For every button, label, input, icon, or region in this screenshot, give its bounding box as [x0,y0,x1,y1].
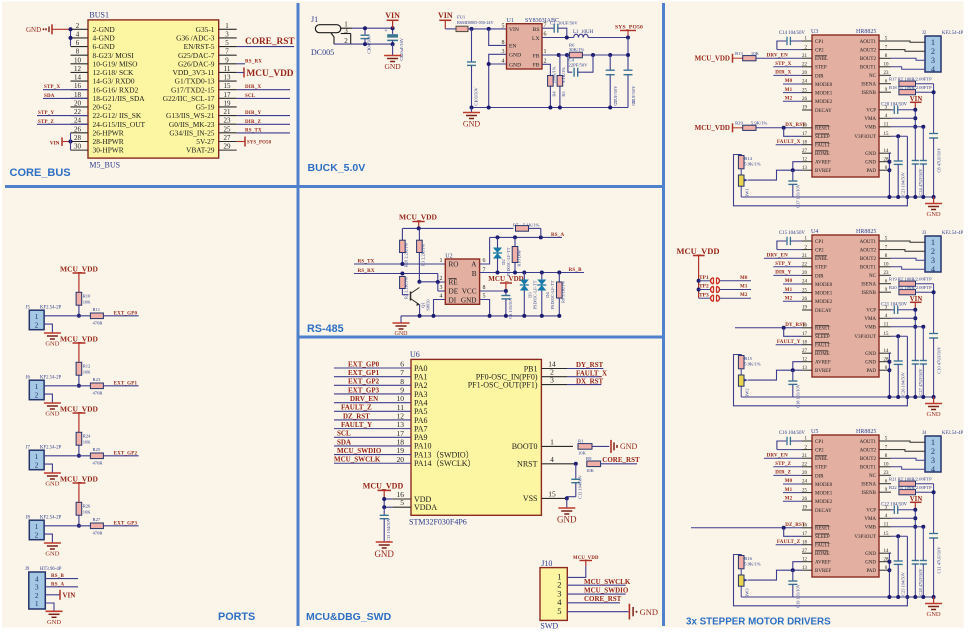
svg-text:DZ_RST: DZ_RST [785,523,806,528]
capacitor C7 22UF/50V [609,55,611,70]
connector J5 KF2.54-2P [29,310,44,330]
svg-text:22: 22 [802,263,808,268]
svg-text:PA3: PA3 [414,390,428,399]
svg-text:SDA: SDA [337,438,351,446]
U3 pin 17 SLEEP [802,135,812,137]
svg-text:FAULT_X: FAULT_X [576,370,607,378]
U5 pin 8 BOUT2 [879,457,891,459]
svg-text:A: A [471,261,477,269]
wire GND to pin2 [52,28,71,30]
net DX_RST [567,384,601,386]
U6 pin 6 PA0 [334,367,411,369]
svg-text:470R: 470R [93,530,104,535]
svg-text:SCL: SCL [337,430,351,438]
svg-text:AOUT2: AOUT2 [860,49,877,54]
svg-text:BOUT1: BOUT1 [860,66,877,71]
wire DRV_EN [764,257,802,259]
svg-text:24: 24 [802,80,808,85]
capacitor C5 220uF/16V electrolytic [392,28,394,34]
U5 pin 3 VCP [879,509,891,511]
svg-text:J1: J1 [311,15,318,24]
svg-text:15: 15 [548,489,556,498]
U5 pin 24 MODE0 [802,483,812,485]
svg-text:VMA: VMA [864,517,876,522]
svg-text:8: 8 [483,285,486,291]
wire BOUT2 to J2 pin3 [891,58,925,60]
U3 pin 5 AOUT1 [879,40,891,42]
U6 pin 8 PA2 [334,384,411,386]
net M2 at TP3 [720,297,752,299]
svg-text:R2 2.2K/1%: R2 2.2K/1% [404,277,409,299]
wire RW3 wiper to BVREF [748,570,802,580]
svg-text:24: 24 [802,480,808,485]
svg-text:KF2.54-2P: KF2.54-2P [40,306,62,311]
U5 pin 7 AOUT2 [879,449,891,451]
svg-text:RS_RX: RS_RX [245,59,262,64]
svg-text:EXT_GP1: EXT_GP1 [114,381,138,386]
U3 pin 3 VCP [879,109,891,111]
J1 pin 1 stub [341,27,352,29]
BUS1 pin 21 stub (right) [219,115,237,117]
wire U2 GND pin down [480,300,490,316]
svg-text:22: 22 [802,463,808,468]
svg-text:DY_RST: DY_RST [785,323,806,328]
capacitor C27 47UF/50V on VIN bus [912,360,919,362]
BUS1 pin 14 stub (left) [71,80,89,82]
BUS1 pin 19 stub (right) [219,106,237,108]
section divider vertical right [662,3,665,626]
svg-text:6: 6 [76,39,80,47]
wire V3P3OUT [891,535,907,537]
power VIN at J9 pin2 [45,594,60,596]
capacitor C8 22UF/50V [624,69,633,71]
svg-text:1: 1 [440,258,443,264]
svg-text:4: 4 [931,65,935,74]
ground GND stepper block [933,197,935,203]
svg-text:RW1: RW1 [745,188,750,197]
U6 pin 18 PA10 [334,445,411,447]
junction J6 pin1 node [77,384,81,388]
svg-text:23: 23 [224,117,232,125]
ground GND stepper block [933,597,935,603]
svg-text:19: 19 [224,99,232,107]
resistor R27 470R [90,523,103,529]
svg-text:C23 104/50V: C23 104/50V [901,171,906,196]
U6 pin 7 PA1 [334,376,411,378]
svg-text:BVREF: BVREF [815,569,831,574]
U6 pin 15 VSS [541,497,566,499]
svg-text:23: 23 [884,471,890,476]
svg-text:20: 20 [802,71,808,76]
svg-text:MODE1: MODE1 [815,92,833,97]
svg-text:KF2.54-4P: KF2.54-4P [942,31,964,36]
svg-text:20: 20 [397,455,405,464]
capacitor C26 104/50V VMB branch [922,327,924,361]
svg-text:MCU_VDD: MCU_VDD [247,69,294,79]
svg-text:11: 11 [224,65,231,73]
svg-text:PA6: PA6 [414,416,428,425]
svg-text:PA9: PA9 [414,433,428,442]
svg-text:GND: GND [384,62,401,71]
U5 pin 18 FAULT [802,544,812,546]
wire U1 GND pins [489,54,507,64]
svg-text:GND: GND [927,611,941,618]
section divider horizontal under RS-485 [298,336,664,339]
svg-text:DZ_RST: DZ_RST [343,412,370,420]
U5 pin 10 BOUT1 [879,466,891,468]
svg-text:13: 13 [802,566,808,571]
svg-text:J7: J7 [26,446,31,451]
wire J8 pin1 [44,525,90,527]
svg-text:CP1: CP1 [815,240,824,245]
svg-text:U3: U3 [811,29,818,35]
svg-text:3: 3 [344,27,348,35]
U6 pin 16 VDD [393,498,411,500]
U4 pin 19 DECAY [802,309,812,311]
svg-text:8: 8 [76,48,80,56]
U4 pin 1 CP1 [802,240,812,242]
section divider horizontal under CORE_BUS and BUCK_5.0V [5,185,664,188]
svg-text:GND: GND [557,515,577,525]
svg-text:AOUT1: AOUT1 [860,40,877,45]
svg-text:R26: R26 [83,503,91,508]
svg-text:M1: M1 [785,488,793,493]
svg-text:GND: GND [865,352,876,357]
wire V3P3OUT rail crossing [905,395,909,399]
svg-text:10: 10 [397,394,405,403]
svg-text:4: 4 [76,30,80,38]
BUS1 pin 3 stub (right) [219,37,237,39]
svg-text:GND: GND [865,561,876,566]
U3 pin 2 CP2 [802,49,812,51]
svg-text:R24: R24 [83,433,91,438]
svg-text:27: 27 [224,134,232,142]
wire ISEN bus down [933,84,935,134]
BUS1 pin 20 stub (left) [71,106,89,108]
wire VIN bus down [914,310,916,357]
svg-text:VIN: VIN [385,11,400,20]
svg-text:VMB: VMB [865,126,877,131]
svg-text:15: 15 [884,532,890,537]
U3 pin 11 VMB [879,126,891,128]
svg-text:5: 5 [483,294,486,300]
svg-text:10: 10 [884,263,890,268]
svg-text:5: 5 [502,23,505,29]
svg-text:CP2: CP2 [815,249,824,254]
net DY_RST [567,368,603,370]
wire VIN to fuse [445,28,456,30]
svg-text:GND: GND [509,53,521,59]
svg-text:23: 23 [884,71,890,76]
ground GND J5 [44,332,61,334]
svg-text:SLEEP: SLEEP [815,135,830,140]
U3 pin 9 ISENB [879,91,891,93]
ground GND right of R1 [610,440,612,453]
wire DI to ground bus [434,300,446,316]
svg-text:J9: J9 [25,567,30,572]
svg-text:DIR_Z: DIR_Z [775,471,791,476]
U6 pin 3 PF1 [541,384,567,386]
ground GND buck [471,108,473,113]
connector J1 DC005 barrel jack [315,25,340,33]
svg-text:104/50V: 104/50V [367,34,372,50]
svg-text:27: 27 [802,549,808,554]
svg-text:RE: RE [449,279,459,287]
junction Q1 collector / RE-DE node [417,280,421,284]
U4 pin 6 ISENA [879,283,891,285]
wire VMA to VIN bus [891,517,915,519]
svg-text:11: 11 [397,403,404,412]
svg-text:PAD: PAD [866,569,876,574]
wire VIN bus down [914,110,916,157]
svg-text:22: 22 [74,108,82,116]
svg-text:R3 2.2K/1%: R3 2.2K/1% [421,244,426,266]
svg-text:1: 1 [544,49,547,55]
svg-text:13: 13 [397,420,405,429]
wire L1 to output node [588,37,628,39]
svg-text:RESET: RESET [815,527,830,532]
net EXT_GP2 [103,455,138,457]
U3 pin 1 CP1 [802,40,812,42]
svg-text:4: 4 [550,455,554,464]
svg-text:ISENA: ISENA [861,83,876,88]
svg-text:6: 6 [483,258,486,264]
wire stepper ground rail [741,396,933,398]
connector J2 KF2.54-4P [925,36,941,72]
svg-text:M0: M0 [740,276,748,281]
svg-text:DECAY: DECAY [815,109,832,114]
svg-text:KF2.54-2P: KF2.54-2P [40,516,62,521]
svg-text:J8: J8 [26,516,31,521]
svg-text:DE: DE [449,288,459,296]
svg-text:MCU_SWDIO: MCU_SWDIO [584,587,629,595]
svg-text:19: 19 [802,106,808,111]
BUS1 pin 22 stub (left) [71,115,89,117]
svg-text:11: 11 [884,323,889,328]
svg-text:SLEEP: SLEEP [815,535,830,540]
svg-text:9: 9 [225,56,229,64]
svg-text:DECAY: DECAY [815,309,832,314]
svg-text:MCU_VDD: MCU_VDD [677,246,720,256]
svg-text:HR8825: HR8825 [856,29,876,35]
tvs diode D4 PSD05C-LF-TT [541,273,543,280]
BUS1 pin 17 stub (right) [219,97,237,99]
svg-text:NRST: NRST [517,460,538,469]
svg-text:CP2: CP2 [815,449,824,454]
wire J6 pin2 to GND [44,394,52,402]
svg-text:FAULT: FAULT [815,544,830,549]
wire EN branch [489,29,507,46]
svg-text:FAULT: FAULT [815,344,830,349]
svg-text:V3P3OUT: V3P3OUT [854,535,876,540]
svg-text:21: 21 [802,454,808,459]
svg-text:1: 1 [35,599,39,608]
svg-text:MCU_VDD: MCU_VDD [60,264,98,273]
svg-text:C26 104/50V: C26 104/50V [901,371,906,396]
BUS1 pin 30 stub (left) [71,149,89,151]
svg-text:9.1K/1%: 9.1K/1% [561,67,566,83]
wire buck ground bus [472,107,629,109]
svg-text:RESET: RESET [815,327,830,332]
svg-text:C16 104/50V: C16 104/50V [779,431,806,436]
net MCU_SWDIO at J10 [567,593,625,595]
svg-text:RS_A: RS_A [551,233,564,238]
U5 pin 14 GND [879,552,891,554]
svg-text:C17 105/10V: C17 105/10V [796,183,801,208]
tvs diode D2 PSD05C-LF-TT [497,237,499,247]
U6 pin 17 PA9 [334,436,411,438]
svg-text:15: 15 [224,82,232,90]
wire J10 pin1 to MCU_VDD [567,566,586,577]
svg-text:C25 104/50V: C25 104/50V [901,571,906,596]
svg-text:FU1: FU1 [457,15,466,20]
svg-text:MODE2: MODE2 [815,500,833,505]
svg-text:R4: R4 [552,91,557,97]
svg-text:ENBL: ENBL [815,257,828,262]
wire RW2 wiper to BVREF [748,370,802,380]
U5 pin 6 ISENA [879,483,891,485]
connector J7 KF2.54-2P [29,450,44,470]
junction EN branch [487,27,491,31]
BUS1 pin 4 stub (left) [71,37,89,39]
U5 pin 5 AOUT1 [879,440,891,442]
svg-text:MCU_VDD: MCU_VDD [60,474,98,483]
svg-text:105/50V: 105/50V [474,86,479,102]
U6 pin 11 PA5 [334,410,411,412]
wire AVREF to BVREF tie [793,562,802,571]
svg-text:4: 4 [931,465,935,474]
U5 pin 27 HOME [802,552,812,554]
resistor R16 5.9K/1% [738,556,744,569]
U4 pin 17 SLEEP [802,335,812,337]
svg-text:NC: NC [869,474,877,479]
svg-text:NC: NC [869,74,877,79]
U5 pin 4 VMA [879,517,891,519]
U6 pin 14 PB1 [541,368,567,370]
svg-text:MODE2: MODE2 [815,300,833,305]
resistor R11 470R [90,313,103,319]
wire RE-DE tie [419,281,437,283]
svg-text:DX_RST: DX_RST [576,377,604,385]
BUS1 pin 27 stub (right) [219,140,237,142]
wire BOUT1 to J4 pin4 [891,467,925,470]
wire GND pins tie [889,353,891,397]
wire FB2 to R4 [542,64,550,75]
wire DRV_EN [764,457,802,459]
svg-text:12: 12 [397,411,405,420]
svg-text:ISENB: ISENB [862,291,877,296]
svg-text:MCU_VDD: MCU_VDD [399,213,437,222]
U5 pin 15 V3P3OUT [879,535,891,537]
svg-text:R20 RT 100R/2.00FTP: R20 RT 100R/2.00FTP [889,285,932,290]
svg-text:MCU_SWDIO: MCU_SWDIO [337,447,382,455]
svg-text:DC005: DC005 [311,48,334,57]
BUS1 pin 29 stub (right) [219,149,237,151]
wire fuse to U1 VIN [468,28,507,30]
svg-text:MODE0: MODE0 [815,283,833,288]
net EXT_GP3 [103,525,138,527]
capacitor C6 105/50V [505,291,507,296]
ground GND stepper block [933,397,935,403]
svg-text:PA7: PA7 [414,424,428,433]
svg-text:18: 18 [802,140,808,145]
ground GND below C13 [376,541,393,543]
wire stepper ground rail [741,196,933,198]
svg-text:MODE2: MODE2 [815,100,833,105]
U4 pin 13 BVREF [802,369,812,371]
svg-text:GND: GND [395,331,409,337]
svg-text:23: 23 [884,271,890,276]
svg-text:7: 7 [400,368,404,377]
wire VMB to VIN bus [891,326,923,328]
svg-text:+: + [384,28,388,35]
svg-text:10: 10 [884,463,890,468]
section divider vertical left [297,3,300,626]
U4 pin 28 GND [879,361,891,363]
svg-text:BOUT2: BOUT2 [860,57,877,62]
svg-text:ISENA: ISENA [861,283,876,288]
ground GND at VSS [566,498,568,507]
svg-text:R8 5.1K/1%: R8 5.1K/1% [561,281,566,303]
wire J8 pin2 to GND [44,534,52,542]
svg-text:U4: U4 [811,229,818,235]
capacitor C23 104/50V bypass V3P3OUT [897,136,899,161]
resistor R2 2.2K/1% [400,277,406,289]
svg-text:17: 17 [802,532,808,537]
U3 pin 18 FAULT [802,144,812,146]
svg-text:5.9K/1%: 5.9K/1% [744,162,761,167]
svg-text:RS_B: RS_B [569,268,582,273]
U4 pin 4 VMA [879,317,891,319]
potentiometer RW3 [740,569,742,575]
svg-text:BOUT1: BOUT1 [860,466,877,471]
svg-text:13: 13 [224,74,232,82]
svg-text:18: 18 [74,91,82,99]
svg-text:RS-485: RS-485 [307,323,344,335]
svg-text:R18 RT 100R/2.00FTP: R18 RT 100R/2.00FTP [889,85,932,90]
wire RW1 wiper to BVREF [748,170,802,180]
svg-text:DECAY: DECAY [815,509,832,514]
svg-text:C2: C2 [550,21,556,26]
svg-text:9: 9 [400,385,404,394]
svg-text:19: 19 [802,506,808,511]
regulator U1 SY8303IABC body [507,24,543,69]
svg-text:CORE_RST: CORE_RST [602,456,640,464]
U5 pin 28 GND [879,561,891,563]
wire R15 top loop to V3P3OUT rail [734,336,908,406]
svg-text:VCP: VCP [866,509,876,514]
svg-text:17: 17 [802,132,808,137]
svg-text:GND: GND [865,152,876,157]
svg-text:11: 11 [884,523,889,528]
svg-text:12: 12 [74,65,82,73]
connector J4 KF2.54-4P [925,436,941,472]
U5 pin 21 ENBL [802,457,812,459]
svg-text:HOME: HOME [815,552,830,557]
connector J8 KF2.54-2P [29,520,44,540]
junction J7 pin1 node [77,454,81,458]
svg-text:CORE_RST: CORE_RST [584,595,622,603]
svg-text:18: 18 [802,540,808,545]
svg-text:7: 7 [225,48,229,56]
svg-text:21: 21 [802,254,808,259]
svg-text:R12: R12 [83,363,91,368]
wire BOUT2 to J4 pin3 [891,458,925,460]
capacitor C23 104/50V VMB branch [922,127,924,161]
svg-text:GND: GND [640,607,658,617]
svg-text:2: 2 [544,59,547,65]
svg-text:EXT_GP2: EXT_GP2 [348,378,380,386]
